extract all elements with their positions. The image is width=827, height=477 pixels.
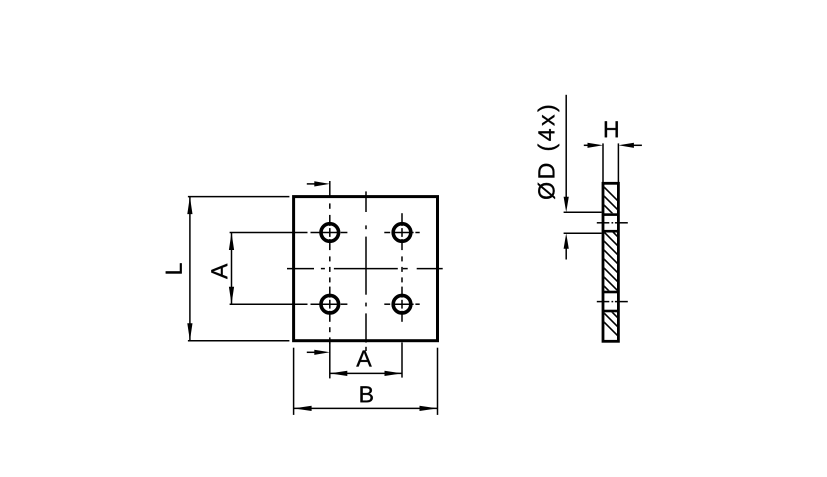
dimension D: extension lines [564,212,602,233]
dimension H: right outside arrow [633,144,642,146]
dimension A (left): dimension line with arrows [231,233,233,305]
side view: top hole edges [603,215,618,232]
side view: hatching [597,180,641,359]
hole top-left [321,224,339,242]
dimension A (bottom): extension lines [330,342,402,378]
label L [166,263,182,273]
side view: bottom hole edges [603,292,618,311]
front view: vertical center line [365,191,367,351]
crosshair bottom-right hole: horizontal [384,303,419,305]
dimension A (left): extension lines / hole row lines [230,233,308,305]
label A (bottom) [356,351,371,367]
front view: horizontal center line [287,268,443,270]
label H [605,121,618,137]
label ØD (4x) [538,106,560,199]
side view: plate outline [603,183,618,341]
crosshair top-left hole [311,232,348,234]
small arrow below plate pointing to hole column [307,351,322,353]
left hole column center line (dash-dot through both holes) [329,181,331,344]
dimension A (bottom): dimension line with arrows [330,372,402,374]
side view: bottom hole center line [597,301,628,303]
label A (left) [211,264,227,279]
dimension H: left outside arrow [584,144,589,146]
hole bottom-right [393,295,411,313]
dimension D: leader line with outside arrows [565,95,567,198]
dimension L: extension lines [188,197,290,341]
dimension H: extension lines [603,143,618,182]
small arrow above plate pointing to hole column [307,183,322,185]
crosshair bottom-left hole: horizontal [311,303,348,305]
hole bottom-left [321,295,339,313]
right hole column center line [401,213,403,322]
dimension L: dimension line with arrows [189,197,191,341]
side view: top hole center line [597,222,628,224]
dimension B: dimension line with arrows [294,407,438,409]
dimension B: extension lines [294,348,438,415]
label B [360,386,372,402]
front view: plate outline [294,197,438,341]
hole top-right [393,224,411,242]
crosshair top-right hole: horizontal [384,232,419,234]
